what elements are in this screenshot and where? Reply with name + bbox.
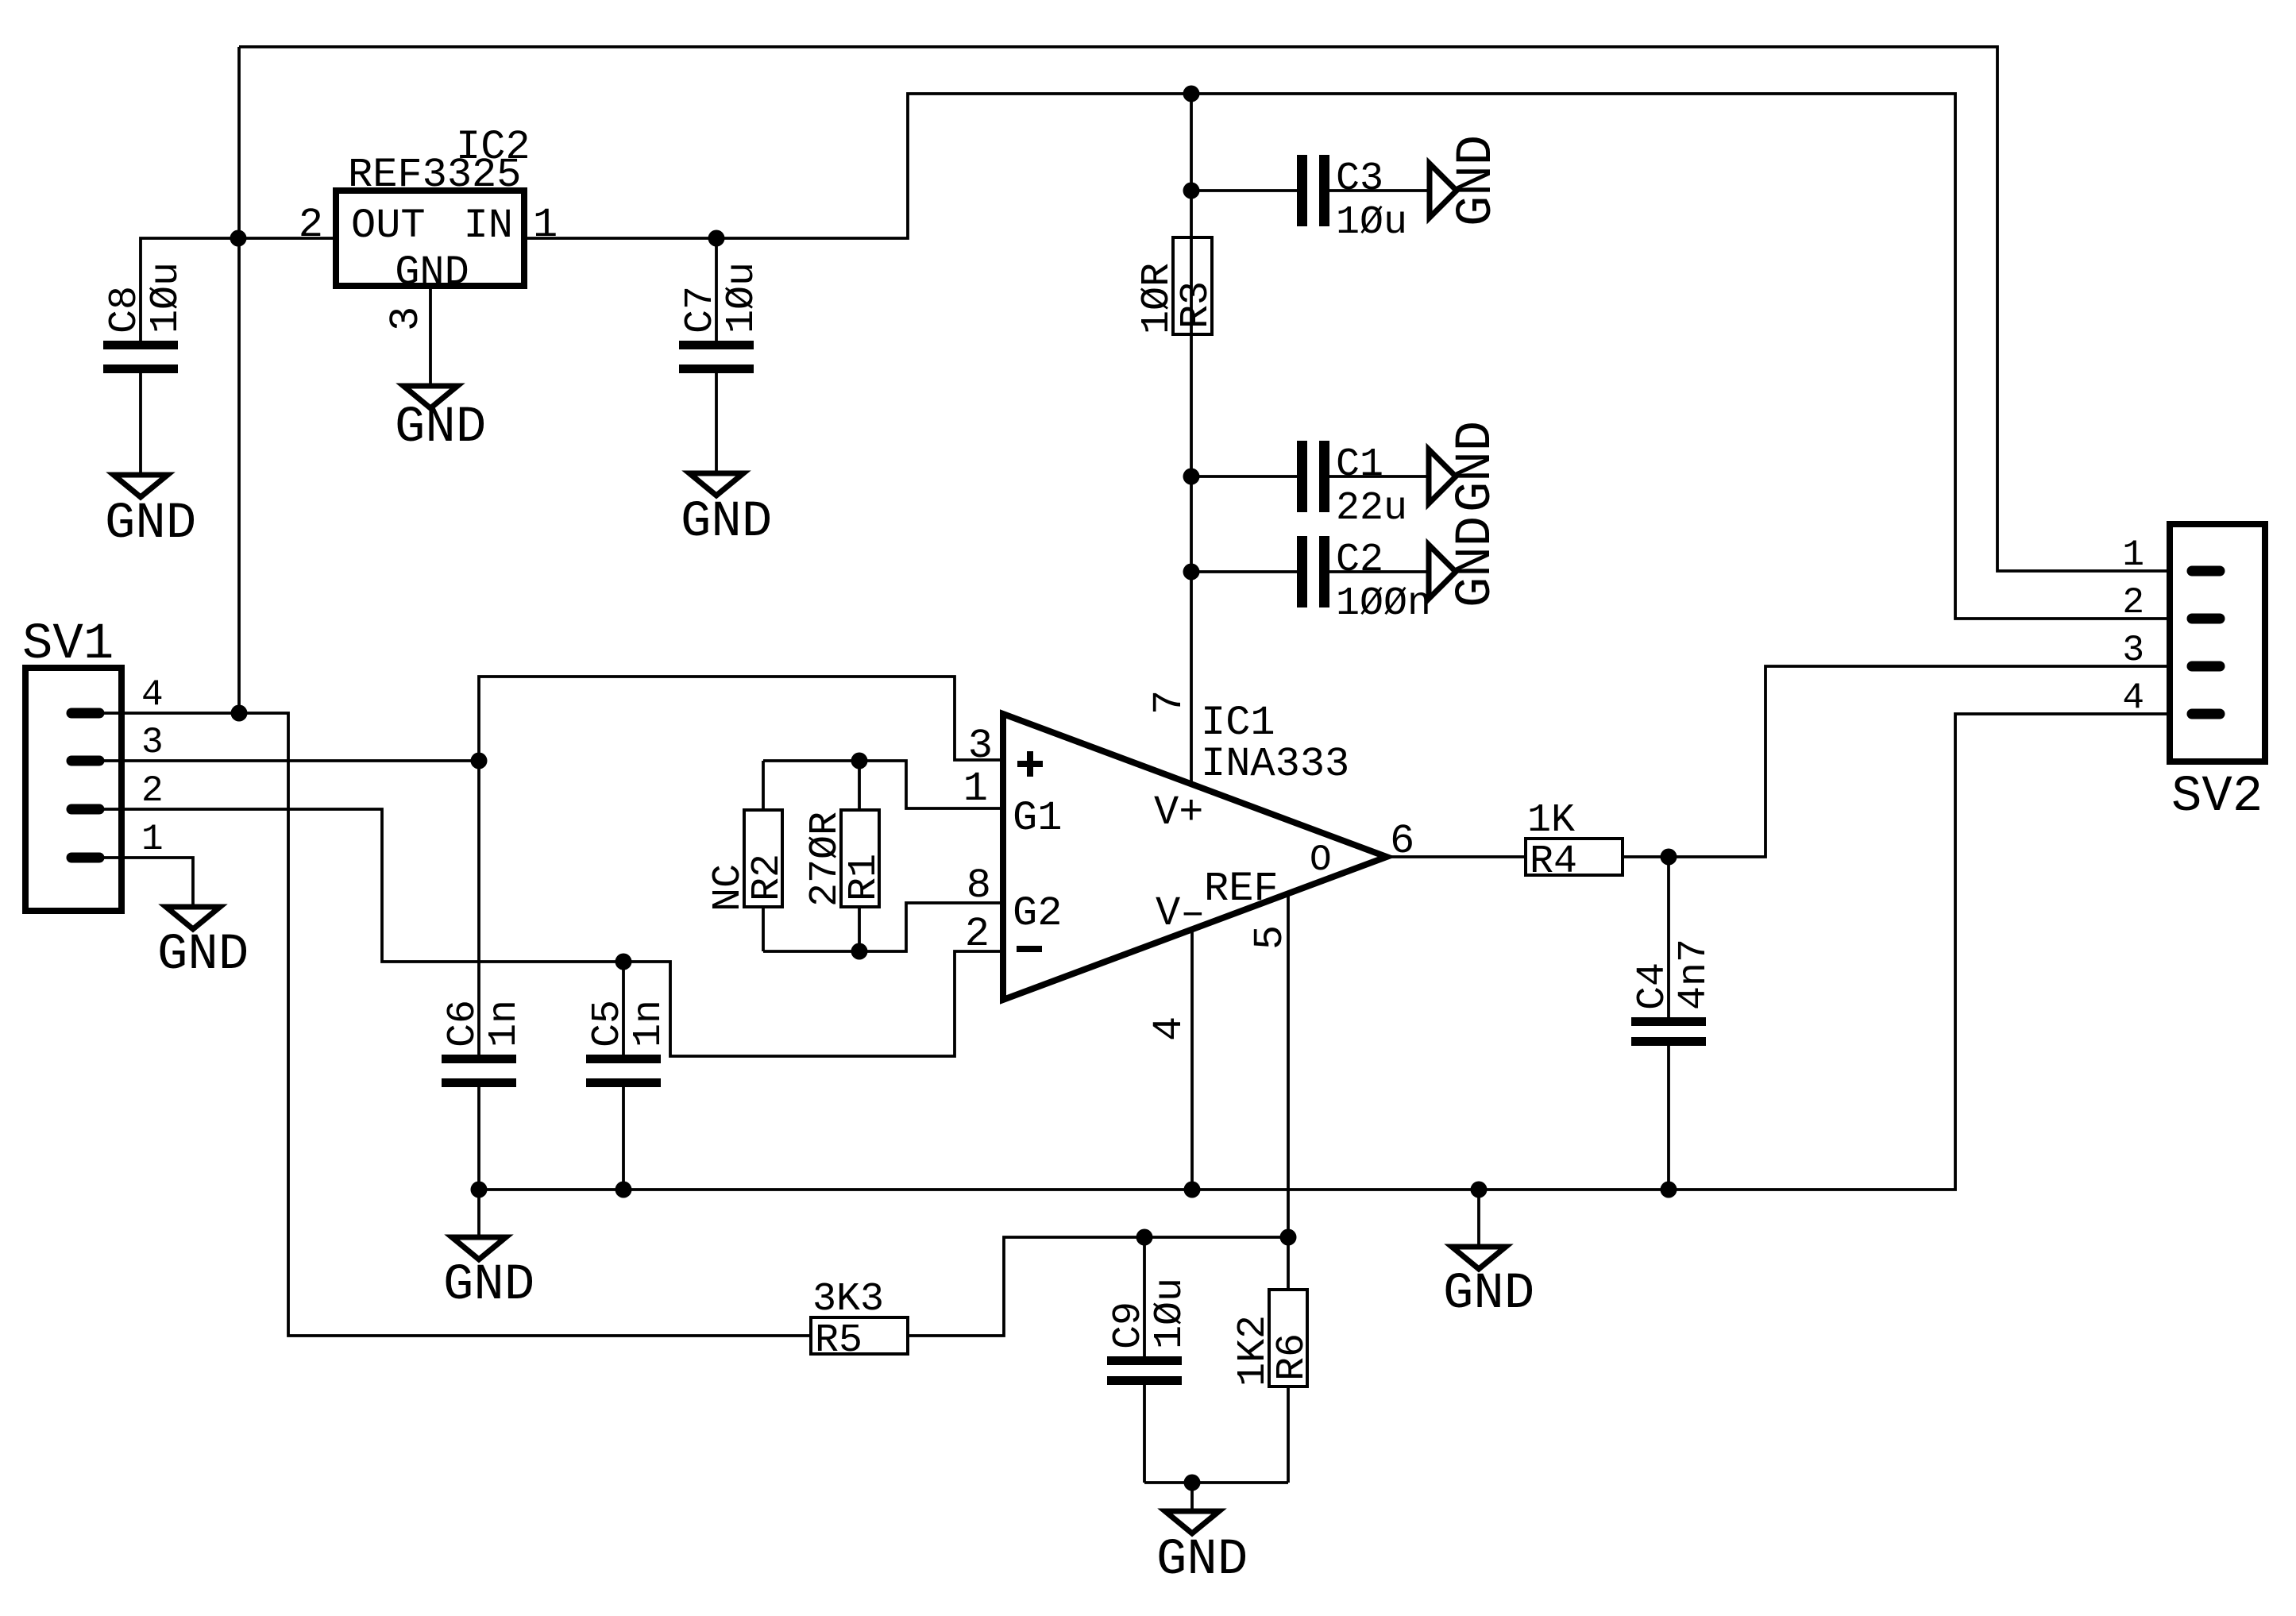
svg-text:INA333: INA333 xyxy=(1201,741,1349,788)
svg-text:GND: GND xyxy=(395,249,469,296)
svg-text:GND: GND xyxy=(1443,1266,1534,1323)
svg-text:1ØØn: 1ØØn xyxy=(1336,581,1431,627)
svg-text:4: 4 xyxy=(141,674,164,715)
svg-text:1Øu: 1Øu xyxy=(1336,200,1407,245)
node C7 tap xyxy=(708,230,725,247)
capacitor C7 xyxy=(678,238,765,473)
svg-text:SV2: SV2 xyxy=(2171,769,2263,826)
svg-text:SV1: SV1 xyxy=(22,616,114,673)
svg-text:GND: GND xyxy=(1156,1532,1248,1589)
resistor R1 270R xyxy=(803,761,887,951)
svg-text:2: 2 xyxy=(965,911,990,958)
svg-text:22u: 22u xyxy=(1336,486,1407,531)
resistor R3 10R xyxy=(1135,237,1219,334)
svg-text:1Øu: 1Øu xyxy=(1148,1278,1193,1349)
connector SV1 xyxy=(22,616,164,911)
svg-text:1: 1 xyxy=(533,202,558,249)
svg-text:C4: C4 xyxy=(1630,962,1676,1010)
svg-text:R4: R4 xyxy=(1530,839,1577,885)
svg-text:V+: V+ xyxy=(1154,789,1203,836)
svg-text:GND: GND xyxy=(443,1257,534,1314)
svg-text:1: 1 xyxy=(141,819,164,860)
svg-text:R5: R5 xyxy=(815,1318,862,1363)
svg-text:1Øu: 1Øu xyxy=(144,262,189,334)
svg-text:2: 2 xyxy=(2122,582,2144,623)
node R1 top junction xyxy=(851,753,868,769)
svg-text:REF3325: REF3325 xyxy=(348,152,521,199)
node R6 top junction xyxy=(1280,1229,1297,1246)
capacitor C9 xyxy=(1106,1237,1193,1483)
node C2 tap xyxy=(1183,564,1200,580)
wire SV1 pin4 to R5 xyxy=(99,713,811,1336)
svg-text:REF: REF xyxy=(1204,866,1279,912)
node C1 tap xyxy=(1183,469,1200,485)
svg-text:C6: C6 xyxy=(441,1000,486,1047)
node C5 tap xyxy=(615,954,632,970)
svg-text:R2: R2 xyxy=(745,854,790,901)
wire IC2 IN to C7 and SV2 pin2 net xyxy=(527,94,2167,619)
resistor R2 NC xyxy=(706,761,790,951)
svg-text:1: 1 xyxy=(963,766,988,812)
op-amp IC1 INA333 xyxy=(963,690,1414,1041)
svg-text:3: 3 xyxy=(2122,630,2144,671)
wire V+ vertical to op-amp pin 7 xyxy=(1190,94,1193,785)
capacitor C3 xyxy=(1191,155,1430,245)
IC2 REF3325 voltage reference xyxy=(299,124,558,331)
svg-text:1K: 1K xyxy=(1527,798,1575,843)
svg-text:R6: R6 xyxy=(1270,1333,1315,1381)
node C9 top junction xyxy=(1136,1229,1153,1246)
svg-text:C3: C3 xyxy=(1336,156,1383,202)
node V+ rail top junction xyxy=(1183,86,1200,102)
node R1 bottom junction xyxy=(851,943,868,960)
svg-text:1: 1 xyxy=(2122,534,2144,576)
node C6 ground junction xyxy=(471,1182,488,1198)
wire IC2 pin3 to ground xyxy=(429,289,432,386)
svg-text:3: 3 xyxy=(383,307,430,331)
ground GND below IC2 xyxy=(395,386,486,457)
svg-text:3: 3 xyxy=(968,723,993,769)
svg-text:7: 7 xyxy=(1146,690,1193,715)
capacitor C6 xyxy=(441,761,527,1190)
svg-text:IN: IN xyxy=(464,202,513,249)
svg-text:G1: G1 xyxy=(1013,795,1062,842)
capacitor C1 xyxy=(1191,441,1429,531)
wire gain rail top to G1 xyxy=(763,761,1003,808)
capacitor C2 xyxy=(1191,536,1431,627)
ground GND below SV1 pin1 xyxy=(157,907,249,984)
svg-text:R1: R1 xyxy=(842,854,887,901)
svg-text:GND: GND xyxy=(105,496,196,553)
node REF ground junction xyxy=(1184,1475,1201,1491)
ground GND below C9 R6 xyxy=(1156,1483,1248,1589)
node ground symbol junction xyxy=(1471,1182,1488,1198)
wire SV1 pin1 to ground xyxy=(99,858,193,907)
wire op-amp output to R4 xyxy=(1387,855,1526,858)
node IC2 OUT junction xyxy=(230,230,247,247)
svg-text:4: 4 xyxy=(1146,1016,1193,1041)
svg-text:3K3: 3K3 xyxy=(812,1277,884,1322)
ground GND right of C3 xyxy=(1430,135,1506,226)
svg-text:GND: GND xyxy=(157,927,249,984)
svg-text:3: 3 xyxy=(141,722,164,763)
svg-text:GND: GND xyxy=(1448,516,1505,607)
wire gain rail bottom to G2 xyxy=(763,903,1003,951)
svg-text:C5: C5 xyxy=(585,1000,631,1047)
svg-text:GND: GND xyxy=(395,399,486,457)
ground GND right of C2 xyxy=(1429,516,1505,607)
capacitor C5 xyxy=(585,962,672,1190)
svg-text:2: 2 xyxy=(299,202,323,249)
svg-text:1Øu: 1Øu xyxy=(720,262,765,334)
svg-text:OUT: OUT xyxy=(351,202,426,249)
wire op-amp pin4 to ground rail xyxy=(1190,929,1194,1190)
ground GND below C7 xyxy=(681,473,772,551)
wire SV1 pin3 to op-amp +input xyxy=(99,677,1003,761)
svg-text:V–: V– xyxy=(1156,890,1205,937)
svg-text:C2: C2 xyxy=(1336,538,1383,583)
ground GND below C8 xyxy=(105,475,196,553)
svg-text:IC1: IC1 xyxy=(1201,700,1275,746)
svg-text:GND: GND xyxy=(1448,421,1505,512)
capacitor C4 xyxy=(1630,857,1717,1190)
svg-text:O: O xyxy=(1310,839,1332,881)
node R4 output junction xyxy=(1661,849,1677,866)
ground GND right of C1 xyxy=(1429,421,1505,512)
svg-text:GND: GND xyxy=(681,494,772,551)
svg-text:C7: C7 xyxy=(678,286,724,334)
wire R5 to REF node xyxy=(908,1237,1288,1336)
svg-text:2: 2 xyxy=(141,770,164,812)
svg-text:R3: R3 xyxy=(1174,281,1219,329)
capacitor C8 xyxy=(102,262,189,475)
svg-text:8: 8 xyxy=(967,862,991,909)
wire SV1 pin2 to op-amp -input xyxy=(99,809,1003,1056)
node C4 ground junction xyxy=(1661,1182,1677,1198)
wire ground rail xyxy=(479,714,2167,1190)
svg-text:4: 4 xyxy=(2122,677,2144,719)
node C6 tap xyxy=(471,753,488,769)
svg-text:1n: 1n xyxy=(627,1000,672,1047)
node C5 ground junction xyxy=(615,1182,632,1198)
svg-text:GND: GND xyxy=(1449,135,1506,226)
svg-text:1n: 1n xyxy=(482,1000,527,1047)
ground GND on main rail xyxy=(1443,1190,1534,1323)
wire op-amp pin5 REF to R6 node xyxy=(1287,894,1290,1237)
svg-text:C9: C9 xyxy=(1106,1302,1152,1349)
node SV1 pin4 junction xyxy=(231,705,248,722)
wire C9 R6 bottom rail xyxy=(1144,1481,1288,1484)
resistor R4 1K xyxy=(1526,798,1623,885)
ground GND below C6 xyxy=(443,1190,534,1314)
svg-text:G2: G2 xyxy=(1013,890,1062,937)
wire IC2 OUT to C8 xyxy=(141,238,333,341)
node C3 tap xyxy=(1183,183,1200,199)
connector SV2 xyxy=(2122,524,2265,826)
node op-amp pin4 ground junction xyxy=(1184,1182,1201,1198)
wire top rail VIN net xyxy=(239,47,2167,713)
svg-text:4n7: 4n7 xyxy=(1672,939,1717,1010)
resistor R5 3K3 xyxy=(811,1277,908,1363)
svg-text:C8: C8 xyxy=(102,286,148,334)
wire R4 to SV2 pin3 xyxy=(1623,666,2167,857)
resistor R6 1K2 xyxy=(1231,1237,1315,1483)
svg-text:C1: C1 xyxy=(1336,442,1383,488)
